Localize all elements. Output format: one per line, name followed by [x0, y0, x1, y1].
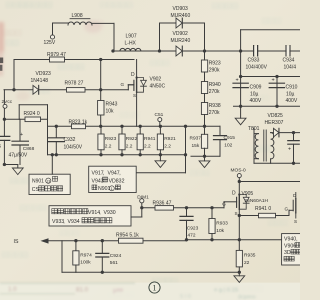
svg-text:MUR460: MUR460: [171, 13, 191, 19]
svg-text:1.0: 1.0: [8, 286, 17, 293]
resistor R921 2.2: [157, 134, 163, 150]
svg-text:C923: C923: [187, 225, 199, 231]
wire: [4, 164, 17, 166]
resistor R923 290k: [201, 60, 207, 72]
svg-text:VD825: VD825: [268, 113, 284, 119]
svg-text:VD832: VD832: [109, 178, 125, 184]
svg-text:400V: 400V: [286, 98, 298, 104]
svg-text:R923: R923: [105, 136, 117, 142]
resistor R935 22: [238, 240, 240, 251]
resistor R922 2.2: [119, 134, 125, 150]
transistor V906 partial: [288, 210, 290, 215]
node: [185, 238, 188, 241]
svg-text:C915: C915: [224, 135, 236, 141]
svg-text:472: 472: [188, 233, 196, 239]
wire: [4, 89, 128, 91]
node: [12, 88, 15, 91]
svg-text:2.2: 2.2: [144, 144, 151, 150]
svg-text:R935: R935: [244, 252, 256, 258]
wire: [48, 125, 221, 127]
svg-text:2Vcc: 2Vcc: [2, 99, 13, 105]
svg-text:15k: 15k: [192, 143, 200, 149]
svg-text:2.2: 2.2: [164, 144, 171, 150]
node: [99, 125, 102, 128]
svg-text:µ¤¤: µ¤¤: [113, 288, 123, 294]
svg-text:CS: CS: [32, 187, 40, 193]
svg-text:C932: C932: [64, 137, 76, 143]
capacitor C915: [219, 126, 221, 135]
svg-text:R978 27: R978 27: [65, 81, 84, 87]
svg-text:561: 561: [110, 260, 118, 266]
wire: [61, 241, 63, 273]
wire: [48, 154, 186, 156]
node: [74, 239, 77, 242]
svg-text:R933: R933: [216, 220, 228, 226]
ground: [17, 165, 19, 169]
svg-text:L907: L907: [126, 34, 137, 40]
node: [120, 125, 123, 128]
wire: [51, 155, 53, 174]
svg-text:10k: 10k: [216, 228, 224, 234]
svg-text:R923: R923: [209, 61, 221, 67]
svg-text:V906: V906: [284, 243, 296, 249]
ground: [238, 272, 240, 276]
svg-text:R941: R941: [144, 136, 156, 142]
svg-text:C51: C51: [155, 112, 164, 118]
annotation V940 box: [282, 234, 301, 265]
resistor R941 2.2: [137, 134, 143, 150]
svg-text:S: S: [133, 93, 136, 98]
svg-text:104/4: 104/4: [284, 64, 297, 70]
wire: [53, 22, 69, 24]
svg-text:2.2: 2.2: [105, 144, 112, 150]
svg-text:HER307: HER307: [265, 120, 284, 126]
node: [99, 58, 102, 61]
svg-text:V940,: V940,: [284, 236, 298, 242]
resistor R937 15k: [201, 134, 207, 148]
resistor R974 100k: [75, 241, 77, 251]
svg-text:25N60A1H: 25N60A1H: [245, 198, 269, 204]
svg-text:,: ,: [103, 170, 104, 176]
svg-text:400V: 400V: [250, 98, 262, 104]
wire: [14, 59, 134, 61]
node: [3, 118, 6, 121]
svg-text:R937: R937: [190, 135, 202, 141]
svg-text:G: G: [222, 202, 226, 207]
node: [101, 271, 104, 274]
node: [239, 75, 242, 78]
svg-text:V905: V905: [242, 191, 254, 197]
svg-text:N901: N901: [98, 186, 111, 192]
svg-text:R974: R974: [80, 252, 92, 258]
svg-text:C910: C910: [286, 85, 298, 91]
wire: [136, 92, 138, 126]
wire: [136, 172, 185, 174]
wire: [254, 162, 300, 164]
svg-text:V934: V934: [68, 219, 80, 225]
wire: [204, 115, 206, 127]
wire: [191, 155, 220, 157]
wire: [238, 209, 240, 215]
node: [185, 206, 188, 209]
svg-text:S: S: [235, 211, 238, 216]
svg-text:S: S: [294, 219, 297, 224]
wire: [142, 207, 224, 209]
svg-text:104/50V: 104/50V: [64, 144, 83, 150]
capacitor C868: [19, 119, 21, 140]
svg-text:IS: IS: [14, 239, 19, 245]
svg-text:22: 22: [244, 260, 250, 266]
svg-text:D: D: [131, 72, 135, 78]
capacitor C923: [186, 208, 188, 216]
wire: [240, 30, 242, 118]
svg-text:125V: 125V: [44, 40, 56, 46]
wire: [100, 60, 102, 127]
resistor R938 270k: [201, 103, 207, 115]
svg-text:,: ,: [119, 170, 120, 176]
ground: [159, 155, 161, 161]
svg-text:R943: R943: [106, 102, 118, 108]
svg-text:L-HX: L-HX: [125, 41, 137, 47]
ground: [235, 118, 246, 125]
svg-text:C868: C868: [23, 146, 35, 152]
resistor R943: [98, 101, 104, 116]
svg-text:5 l 0: 5 l 0: [180, 294, 191, 300]
node: [55, 153, 58, 156]
wire: [241, 29, 300, 31]
svg-text:,: ,: [99, 210, 100, 216]
svg-text:C933: C933: [248, 58, 260, 64]
svg-text:100k: 100k: [80, 260, 91, 266]
svg-text:R938: R938: [209, 103, 221, 109]
svg-text:+: +: [288, 147, 291, 153]
wire: [234, 105, 301, 107]
svg-text:1: 1: [152, 283, 156, 293]
wire: [241, 76, 300, 78]
wire: [219, 126, 221, 135]
wire: [62, 271, 239, 273]
svg-text:1N4148: 1N4148: [31, 78, 49, 84]
svg-text:¤ g | 0.15: ¤ g | 0.15: [214, 288, 238, 294]
wire: [127, 85, 129, 90]
svg-text:L908: L908: [72, 13, 83, 19]
svg-text:3D: 3D: [284, 250, 291, 256]
svg-text:C924: C924: [110, 253, 122, 259]
svg-text:R954 5.1k: R954 5.1k: [116, 233, 139, 239]
terminal 125V: [50, 35, 54, 39]
svg-text:13: 13: [46, 180, 50, 184]
capacitor left-edge: [0, 136, 10, 140]
svg-text:2.2: 2.2: [126, 144, 133, 150]
wire: [4, 118, 47, 120]
node: [158, 49, 161, 52]
svg-text:270k: 270k: [209, 89, 220, 95]
wire: [131, 216, 142, 218]
annotation N901 CS box: [29, 174, 70, 194]
svg-text:1: 1: [111, 187, 113, 191]
node: [238, 180, 241, 183]
wire: [239, 181, 300, 183]
svg-text:R924 0: R924 0: [24, 111, 40, 117]
node: [111, 49, 114, 52]
capacitor secondary: [293, 133, 295, 140]
annotation backlight box: [49, 206, 131, 226]
svg-text:R921: R921: [164, 136, 176, 142]
svg-text:104/400V: 104/400V: [246, 64, 268, 70]
svg-text:102: 102: [224, 142, 232, 148]
svg-text:G: G: [121, 82, 125, 87]
svg-text:MOS-0: MOS-0: [231, 168, 247, 174]
svg-text:V947: V947: [108, 170, 120, 176]
svg-text:4N50C: 4N50C: [150, 84, 166, 90]
svg-text:C909: C909: [250, 85, 262, 91]
svg-text:R941 0: R941 0: [255, 206, 271, 212]
capacitor C933: [254, 46, 258, 57]
svg-text:MUR240: MUR240: [171, 38, 191, 44]
wire: [159, 23, 161, 51]
wire: [113, 50, 300, 52]
svg-text:N901: N901: [32, 179, 44, 185]
ground: [204, 156, 206, 161]
svg-text:V902: V902: [150, 77, 162, 83]
svg-text:R940: R940: [209, 82, 221, 88]
capacitor C932: [55, 126, 57, 137]
svg-text:10k: 10k: [106, 108, 115, 114]
svg-text:D: D: [232, 191, 236, 197]
svg-text:VD923: VD923: [36, 71, 52, 77]
resistor R923 2.2: [98, 134, 104, 150]
svg-text:R922: R922: [126, 136, 138, 142]
resistor R940 270k: [201, 82, 207, 94]
svg-text:(k)pino: (k)pino: [238, 295, 256, 300]
node: [239, 49, 242, 52]
resistor R933 10k: [211, 208, 213, 219]
svg-text:290k: 290k: [209, 67, 220, 73]
node: [239, 105, 242, 108]
node: [140, 206, 143, 209]
svg-text:VD902: VD902: [173, 31, 189, 37]
svg-text:V943: V943: [92, 178, 104, 184]
svg-text:V930: V930: [104, 210, 116, 216]
svg-text:47µ/50V: 47µ/50V: [9, 153, 28, 159]
wire: [238, 216, 240, 240]
svg-text:10µ: 10µ: [250, 91, 259, 97]
wire: [185, 126, 187, 172]
svg-text:81.0: 81.0: [76, 287, 89, 294]
capacitor C924: [101, 241, 103, 253]
wire: [276, 77, 278, 107]
svg-text:+: +: [20, 132, 23, 138]
svg-text:10µ: 10µ: [286, 91, 295, 97]
node: [55, 125, 58, 128]
capacitor C934: [287, 46, 290, 56]
resistor R924 jumper loop: [18, 105, 20, 120]
svg-text:C934: C934: [283, 58, 295, 64]
page mark 1: [149, 282, 160, 293]
svg-text:,: ,: [63, 219, 64, 225]
node: [203, 49, 206, 52]
annotation V917 box: [89, 166, 137, 192]
svg-text:270k: 270k: [209, 110, 220, 116]
wire: [187, 239, 282, 241]
wire: [113, 23, 115, 51]
svg-text:VD903: VD903: [173, 6, 189, 12]
node: [292, 131, 295, 134]
left edge fragments: [0, 58, 3, 64]
svg-text:G: G: [285, 206, 289, 211]
